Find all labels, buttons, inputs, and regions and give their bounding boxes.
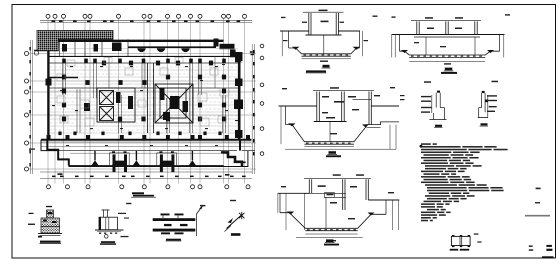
stray dimension marks below plan bbox=[126, 203, 131, 204]
raft inner line bbox=[70, 152, 223, 154]
corridor walls bbox=[147, 63, 149, 133]
raft left step detail marks bbox=[29, 149, 35, 150]
pier detail 5-5 bbox=[430, 93, 447, 120]
section 2-2 slope wedges bbox=[401, 50, 408, 53]
left dimension lines bbox=[29, 40, 31, 174]
detail: exterior wall footing (hatched) bbox=[28, 206, 62, 238]
line under wall bbox=[41, 145, 251, 147]
section 1-1 slope wedges bbox=[292, 47, 300, 50]
main interior wall line 1 bbox=[48, 55, 238, 57]
interior column blocks bbox=[62, 61, 226, 122]
detail: slope arrow symbol bbox=[227, 215, 243, 229]
top wall vertical stubs bbox=[60, 39, 129, 56]
main interior wall line 2 bbox=[48, 62, 238, 64]
raft bottom thick edge bbox=[69, 165, 224, 167]
bottom right black bar bbox=[542, 256, 554, 258]
section 3-3 label bbox=[329, 151, 337, 154]
section 1-1 dim texts bbox=[281, 10, 378, 62]
building top edge wall bbox=[58, 40, 224, 42]
section 2-2 slab hatch bbox=[411, 56, 482, 57]
section 2-2 label bbox=[445, 68, 453, 71]
small pile bumps bbox=[91, 151, 196, 166]
raft thick steps left bbox=[47, 140, 69, 166]
plan title text bbox=[132, 192, 144, 194]
pile cap squares bbox=[57, 58, 229, 127]
section 3-3 dim texts bbox=[282, 87, 405, 134]
right margin dash bbox=[535, 202, 540, 204]
columns mid row bbox=[62, 59, 226, 64]
right grid circles bbox=[260, 44, 264, 155]
pile cap box 1 bbox=[109, 153, 129, 166]
section 4-4 slab hatch bbox=[307, 229, 356, 230]
right margin equal marks bbox=[529, 245, 533, 247]
detail 5-5 label bbox=[435, 125, 442, 127]
top grid circles bbox=[46, 14, 247, 18]
left grid circles bbox=[25, 52, 29, 172]
top-right corner wall mass bbox=[214, 39, 219, 47]
detail 2 leaders bbox=[118, 213, 126, 214]
columns above bottom wall bbox=[58, 132, 221, 136]
plan horizontal grid lines bbox=[29, 54, 256, 170]
detail: strip footing beam bbox=[153, 214, 196, 235]
pier cap arches under top wall bbox=[137, 48, 190, 53]
pier detail 6-6 bbox=[478, 93, 488, 118]
building bottom edge wall bbox=[41, 139, 251, 141]
detail 3 corner arrow bbox=[199, 206, 203, 210]
notes bullet bbox=[420, 145, 423, 148]
pile circle under cap bbox=[105, 235, 109, 239]
columns on left wall bbox=[46, 79, 52, 86]
interior dashed service lines bbox=[50, 67, 238, 130]
bottom dimension lines bbox=[40, 171, 252, 173]
top dimension text ticks bbox=[52, 21, 241, 23]
bottom grid circles bbox=[47, 185, 251, 189]
section 3-3 slope wedges bbox=[288, 123, 296, 126]
section 4-4 dim texts bbox=[281, 174, 394, 241]
hatched podium area top-left bbox=[37, 31, 113, 51]
building inner top wall bbox=[128, 46, 216, 48]
detail 2 ticks bbox=[99, 233, 117, 234]
section 4-4 slope wedges bbox=[287, 212, 295, 215]
detail 4 label bbox=[231, 233, 241, 236]
raft right corner black steps bbox=[221, 152, 242, 166]
pile layout mini-plan bbox=[451, 236, 470, 245]
detail 6-6 label bbox=[481, 123, 488, 125]
detail 1 label bbox=[40, 241, 61, 243]
section 1-1 bbox=[280, 12, 363, 59]
section 4-4 label bbox=[326, 239, 334, 242]
detail: pile cap section bbox=[95, 210, 124, 232]
section 1-1 label bbox=[323, 65, 330, 68]
columns along bottom wall bbox=[47, 135, 251, 140]
raft right end wall bbox=[239, 140, 241, 151]
notes text lines bbox=[421, 143, 508, 221]
right edge wall bbox=[238, 60, 241, 141]
section 2-2 dim texts bbox=[392, 14, 511, 64]
pile plan label bbox=[450, 249, 459, 251]
interior partition walls bbox=[63, 56, 226, 133]
detail 2 label bbox=[101, 241, 115, 243]
strong interior wall lines bbox=[48, 77, 78, 79]
section 2-2 bbox=[392, 20, 505, 61]
left edge wall bbox=[47, 51, 49, 141]
extra shaft block bbox=[84, 103, 90, 111]
right dimension lines bbox=[251, 44, 253, 174]
section 3-3 slab hatch bbox=[306, 143, 351, 144]
left stair core bbox=[97, 88, 135, 122]
raft band right extension lines bbox=[242, 150, 255, 152]
right margin gray line bbox=[525, 215, 550, 217]
raft foundation band outline bbox=[41, 140, 248, 167]
section 1-1 slab hatch bbox=[304, 54, 349, 55]
section 3-3 bbox=[279, 90, 400, 149]
interior floor lines bbox=[49, 49, 238, 134]
bottom wall second line bbox=[41, 141, 251, 143]
top dimension lines bbox=[40, 19, 252, 21]
raft top inner line bbox=[59, 150, 238, 152]
plan interior dimension text marks bbox=[52, 64, 238, 146]
section 4-4 bbox=[278, 178, 400, 237]
detail 3 label bbox=[166, 239, 181, 241]
small dash near notes right bbox=[536, 188, 541, 190]
plan vertical grid lines bbox=[48, 19, 245, 184]
columns on right wall bbox=[234, 52, 243, 138]
right elevator core bbox=[155, 84, 193, 123]
columns along top interior bbox=[62, 43, 122, 52]
left wall small detail bubble bbox=[34, 51, 38, 55]
